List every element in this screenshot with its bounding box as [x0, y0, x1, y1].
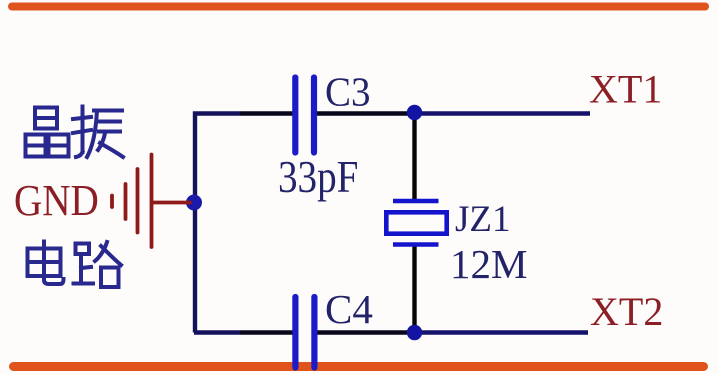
wire left vertical: [193, 112, 197, 333]
svg-text:XT1: XT1: [589, 67, 662, 112]
svg-text:12M: 12M: [450, 241, 527, 287]
电 vertical with hook: [44, 242, 64, 285]
振 chen part: [94, 109, 122, 113]
svg-text:C4: C4: [325, 286, 373, 332]
svg-text:XT2: XT2: [590, 289, 663, 334]
ground: [112, 155, 190, 248]
wire bottom horizontal right: [317, 330, 410, 334]
wire XT2 stub: [410, 330, 588, 335]
node junction bottom: [407, 325, 422, 340]
振 hand radical: [73, 117, 91, 119]
node label 电路 (drawn): [28, 242, 122, 288]
capacitor C3: [295, 78, 314, 153]
wire XT1 stub: [410, 111, 590, 116]
crystal JZ1: [386, 201, 446, 245]
capacitor C4: [295, 297, 314, 368]
node junction ground: [186, 195, 202, 211]
路 foot radical: [76, 244, 90, 255]
svg-text:JZ1: JZ1: [455, 199, 511, 240]
label GND: [14, 177, 99, 226]
晶 top box: [35, 108, 57, 129]
svg-text:33pF: 33pF: [278, 152, 358, 203]
node label 晶振 (drawn): [26, 107, 124, 158]
wire crystal vertical lower: [412, 246, 416, 333]
value 33pF: [278, 152, 358, 203]
label C3: [325, 69, 370, 115]
svg-text:GND: GND: [14, 177, 99, 226]
电 box: [28, 249, 61, 277]
晶 bottom-right box: [49, 135, 69, 157]
晶 bottom-left box: [26, 135, 46, 157]
wire top horizontal left: [193, 111, 240, 115]
svg-text:C3: C3: [325, 69, 370, 115]
wire crystal vertical upper: [412, 113, 416, 200]
wire bottom horizontal left: [194, 330, 240, 334]
wire top horizontal right: [317, 111, 410, 115]
路 ge part: [95, 242, 107, 261]
node junction top: [407, 105, 422, 120]
